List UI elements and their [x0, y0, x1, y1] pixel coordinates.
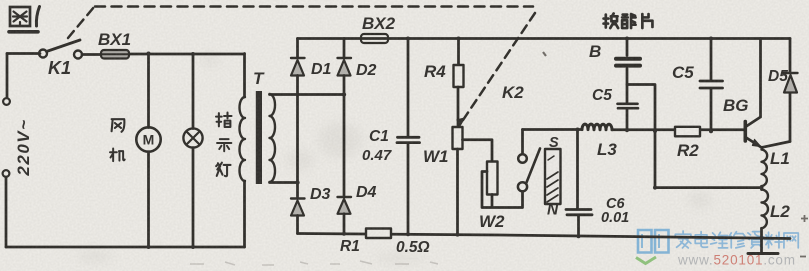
inductor L2: [762, 190, 769, 229]
label lamp text shi: [217, 139, 231, 151]
watermark text blue: [675, 231, 798, 248]
resistor R2: [675, 127, 700, 137]
diode D5 branch: [789, 39, 792, 142]
capacitor C5b: [700, 80, 723, 83]
capacitor C6: [566, 208, 591, 211]
resistor R4: [454, 65, 464, 87]
terminal bar below L2: [748, 252, 778, 255]
wire emitter to D5: [762, 142, 791, 148]
label lamp text deng: [216, 163, 230, 177]
motor M fan: [136, 127, 160, 151]
node AC terminal upper: [3, 98, 10, 105]
wire L2 to bus and stub: [760, 186, 763, 253]
wire left AC vertical lower: [5, 177, 8, 247]
transformer core: [256, 91, 262, 184]
transformer T secondary: [270, 94, 276, 182]
dashed link top run: [95, 5, 533, 8]
wire R4 branch: [457, 39, 460, 66]
inductor L3: [582, 124, 612, 130]
magnet S-N: [545, 149, 561, 204]
char zi: [747, 232, 764, 248]
switch K2 contacts: [518, 154, 527, 163]
capacitor C1: [398, 136, 420, 139]
wire transducer branch top: [626, 39, 629, 56]
arrow onto W1: [457, 118, 465, 126]
wire W2 lower loop: [482, 172, 523, 208]
transistor BG: [743, 122, 747, 142]
label figure number box: [9, 7, 40, 32]
rheostat W2: [487, 162, 498, 195]
char wei: [711, 232, 728, 248]
char liao: [765, 232, 783, 248]
dashed link to W1: [461, 13, 535, 123]
transducer B: [616, 57, 640, 61]
fuse BX1: [101, 50, 129, 59]
wire feedback tap: [627, 85, 762, 188]
wire C5a to mid line: [626, 110, 629, 130]
wire secondary top to bridge: [270, 93, 345, 96]
diode D1: [291, 57, 305, 59]
diode D4: [338, 196, 352, 198]
node AC terminal lower: [3, 170, 10, 177]
wire secondary bottom to bridge: [270, 181, 298, 184]
fuse BX2: [361, 34, 388, 43]
wire bridge right branch: [343, 39, 346, 234]
wire bottom-left bus: [6, 246, 245, 249]
diode D3: [291, 197, 305, 199]
inductor L1: [762, 150, 768, 187]
watermark logo swoosh: [636, 257, 656, 264]
char wang: [784, 233, 798, 248]
char dian: [695, 232, 707, 248]
wire left AC vertical upper: [6, 54, 9, 98]
char xiu: [729, 232, 745, 248]
wire top-left AC line: [7, 52, 40, 55]
label transducer text neng: [622, 14, 635, 28]
capacitor C6 branch: [576, 130, 579, 209]
char jia: [675, 231, 691, 248]
capacitor C1 branch wire: [407, 39, 410, 137]
resistor R1: [366, 229, 391, 239]
wire K2 upper to L3 line: [521, 130, 524, 155]
lamp indicator: [183, 128, 202, 147]
wire fan branch lower: [147, 152, 150, 247]
label transducer text huan: [604, 14, 619, 29]
diode D2: [338, 57, 352, 59]
wire lamp branch lower: [192, 148, 195, 247]
transformer T primary: [243, 54, 246, 98]
wire DC top bus: [298, 37, 791, 40]
label fan text ji: [110, 149, 125, 162]
diode D5: [784, 72, 798, 74]
potentiometer W1: [453, 127, 463, 149]
wire B to C5a: [626, 69, 629, 103]
capacitor C5b branch: [710, 39, 713, 132]
wire W1 to W2: [463, 140, 493, 162]
wire W1 to bottom bus: [456, 149, 459, 235]
speck artifacts: [190, 52, 808, 265]
wire fan branch upper: [147, 54, 150, 128]
dashed link K1 to shaft: [68, 7, 94, 38]
wire DC bottom bus: [298, 234, 791, 239]
wire K1 to BX1: [82, 53, 101, 56]
wire oscillator mid line: [523, 128, 745, 131]
label fan text feng: [112, 119, 125, 132]
watermark logo book: [638, 230, 669, 253]
wire BX1 to transformer: [129, 53, 245, 56]
label lamp text zhi: [216, 113, 232, 127]
label transducer text pian: [642, 14, 652, 28]
capacitor C5a: [618, 103, 638, 106]
wire R4 to W1: [457, 87, 460, 127]
wire lamp branch upper: [192, 54, 195, 129]
switch K1: [39, 50, 47, 58]
wire bridge left branch: [296, 39, 299, 234]
